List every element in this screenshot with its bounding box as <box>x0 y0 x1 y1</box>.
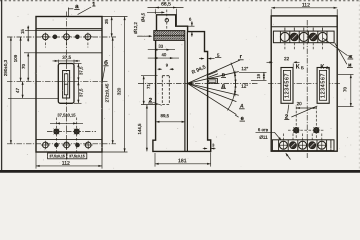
svg-text:40: 40 <box>162 52 167 57</box>
svg-text:Б: Б <box>301 65 304 70</box>
svg-text:320: 320 <box>117 87 122 95</box>
svg-text:37,5: 37,5 <box>62 55 71 60</box>
svg-text:144,5: 144,5 <box>137 123 142 135</box>
svg-text:1234567: 1234567 <box>285 73 291 98</box>
svg-text:20: 20 <box>297 101 303 106</box>
svg-text:33: 33 <box>158 44 163 49</box>
svg-text:1234567: 1234567 <box>321 73 327 98</box>
svg-text:37,5±0,15: 37,5±0,15 <box>69 154 85 158</box>
svg-text:290±0,3: 290±0,3 <box>3 59 8 76</box>
svg-text:35: 35 <box>104 19 109 25</box>
svg-text:Ø11: Ø11 <box>259 135 268 140</box>
svg-text:12°: 12° <box>241 66 248 71</box>
svg-text:66,5: 66,5 <box>161 1 171 7</box>
svg-text:272±0,45: 272±0,45 <box>105 83 110 102</box>
svg-text:12°: 12° <box>241 84 248 89</box>
svg-text:22: 22 <box>284 56 290 61</box>
svg-text:112: 112 <box>62 161 70 167</box>
svg-text:19: 19 <box>256 73 261 78</box>
svg-text:37,5: 37,5 <box>79 66 84 75</box>
svg-text:1: 1 <box>92 1 96 8</box>
svg-text:70: 70 <box>21 64 26 70</box>
svg-text:47: 47 <box>15 88 20 94</box>
svg-text:71: 71 <box>146 84 151 90</box>
svg-text:70: 70 <box>343 87 348 93</box>
svg-text:37,5±0,15: 37,5±0,15 <box>57 112 76 117</box>
svg-text:15: 15 <box>20 29 25 34</box>
svg-text:37,5: 37,5 <box>79 88 84 97</box>
svg-text:37,5±0,15: 37,5±0,15 <box>49 154 65 158</box>
svg-text:181: 181 <box>178 158 187 164</box>
svg-text:Ø4,5: Ø4,5 <box>141 12 146 22</box>
svg-text:6 отв: 6 отв <box>258 127 269 132</box>
svg-text:А: А <box>326 65 329 70</box>
svg-text:89,5: 89,5 <box>161 113 170 118</box>
svg-text:Ø12,2: Ø12,2 <box>133 22 138 34</box>
svg-text:112: 112 <box>302 2 310 8</box>
svg-text:109: 109 <box>13 54 18 62</box>
